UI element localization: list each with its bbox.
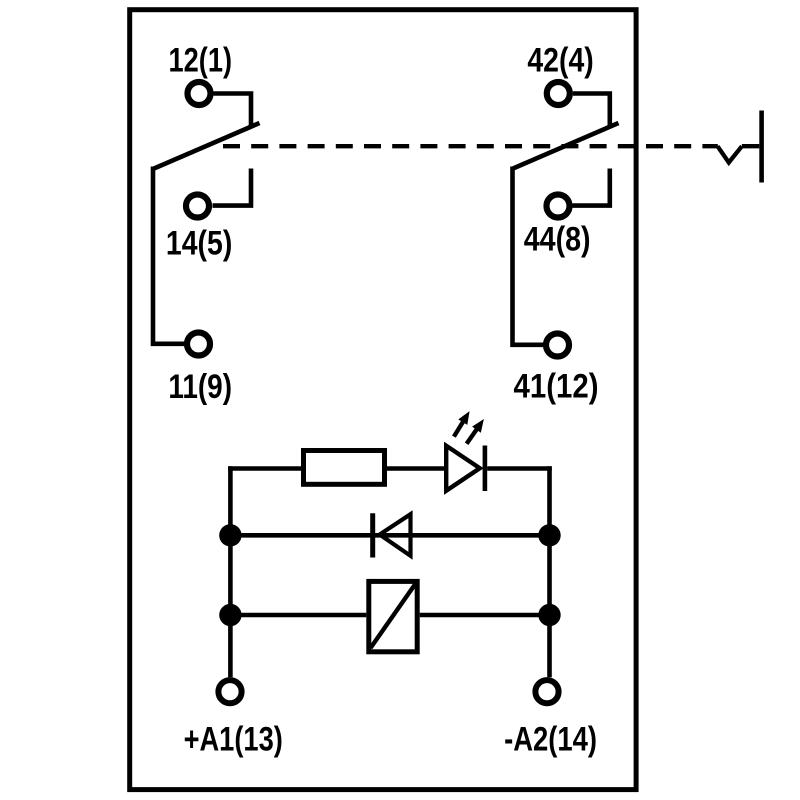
terminal 42(4) circle (547, 82, 570, 105)
svg-text:+A1(13): +A1(13) (184, 721, 283, 759)
svg-text:44(8): 44(8) (524, 221, 591, 259)
diode D2 triangle (380, 514, 411, 556)
wire bottom branch left (230, 613, 366, 618)
svg-text:12(1): 12(1) (169, 42, 233, 80)
wire common 1: blade to terminal 11 (153, 167, 185, 344)
LED arrow 2 head (472, 419, 484, 433)
terminal 14(5) circle (186, 195, 209, 218)
svg-text:41(12): 41(12) (514, 368, 599, 406)
diode D2 cathode bar (370, 513, 375, 557)
wire right rail A2 (547, 466, 552, 677)
wire common 2: blade to terminal 41 (513, 167, 544, 345)
wire NO2: fixed contact to terminal 44 (573, 169, 610, 206)
svg-text:11(9): 11(9) (168, 368, 232, 406)
armature bar (759, 111, 764, 183)
wire LED to right rail (487, 466, 552, 471)
mechanical linkage dashed line (223, 144, 718, 148)
wire left rail A1 (228, 466, 233, 677)
wire NC2: terminal 42 to fixed contact (573, 94, 610, 128)
terminal 41(12) circle (546, 334, 569, 357)
terminal +A1(13) circle (218, 680, 241, 703)
junction dot left middle (219, 524, 241, 546)
junction dot left bottom (219, 604, 241, 626)
wire middle branch (230, 533, 549, 538)
relay coil K1 (369, 581, 417, 651)
terminal -A2(14) circle (535, 680, 558, 703)
junction dot right bottom (538, 604, 560, 626)
svg-text:14(5): 14(5) (166, 224, 232, 262)
linkage end segment (742, 144, 759, 148)
LED D1 cathode bar (483, 446, 488, 492)
LED arrow 1 shaft (454, 421, 464, 437)
terminal 11(9) circle (187, 333, 210, 356)
contact blade CO2 (513, 123, 619, 169)
junction dot right middle (538, 524, 560, 546)
svg-text:-A2(14): -A2(14) (504, 721, 597, 759)
LED arrow 1 head (458, 411, 469, 425)
wire top branch left (228, 466, 301, 471)
wire NC1: terminal 12 to fixed contact (214, 94, 252, 128)
terminal 12(1) circle (188, 82, 211, 105)
resistor R1 (304, 451, 385, 485)
LED D1 triangle (446, 446, 480, 491)
terminal 44(8) circle (547, 195, 570, 218)
linkage notch (718, 146, 742, 162)
wire NO1: fixed contact to terminal 14 (213, 169, 252, 206)
svg-text:42(4): 42(4) (527, 42, 593, 80)
wire bottom branch right (420, 613, 550, 618)
contact blade CO1 (154, 123, 260, 169)
relay coil K1 diagonal (371, 584, 416, 649)
wire resistor to LED (387, 466, 444, 471)
LED arrow 2 shaft (467, 428, 478, 444)
